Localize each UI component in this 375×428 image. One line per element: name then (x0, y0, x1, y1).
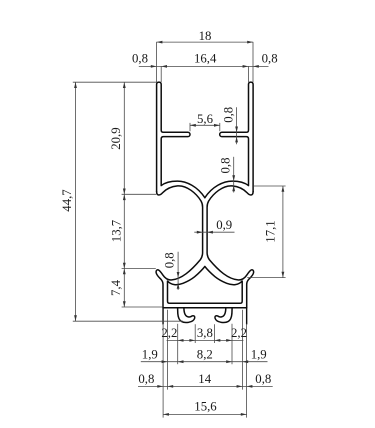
svg-text:14: 14 (198, 372, 211, 386)
svg-text:44,7: 44,7 (60, 189, 74, 212)
dimension leader 0,8 finger (236, 107, 238, 144)
extension line hook tip level (122, 268, 156, 270)
svg-text:7,4: 7,4 (109, 279, 123, 296)
svg-text:0,8: 0,8 (255, 372, 271, 386)
svg-text:17,1: 17,1 (264, 220, 278, 242)
extension line right foot outer (231, 324, 233, 364)
dimension line 44,7 (75, 82, 77, 321)
extension line base top right (247, 277, 285, 279)
extension line left inner wall top (160, 66, 162, 82)
dimension line 18 (157, 41, 253, 43)
svg-text:0,8: 0,8 (132, 52, 148, 66)
extension line right inner wall top (247, 66, 249, 82)
5,6 (190, 124, 196, 127)
row3 0,8 14 0,8 (157, 385, 163, 388)
svg-text:2,2: 2,2 (231, 326, 247, 340)
dimension line 5,6 (190, 124, 220, 126)
row1 2,2 3,8 2,2 (178, 339, 184, 342)
extension line profile bottom (73, 320, 183, 322)
svg-text:20,9: 20,9 (109, 127, 123, 149)
svg-text:1,9: 1,9 (251, 347, 267, 361)
0,8 arc lower-left (177, 272, 180, 278)
dimension line 1,9 / 8,2 / 1,9 (141, 361, 268, 363)
dimension line 0,9 (194, 231, 234, 233)
extension line base outer right (246, 324, 248, 418)
dimension leader 0,8 arc (177, 252, 179, 290)
extension line base inner right (241, 310, 243, 390)
extension line left outer wall top (156, 42, 158, 82)
extension line right web junction (254, 185, 286, 187)
row2 1,9 8,2 1,9 (162, 360, 168, 363)
dimension texts (60, 29, 278, 413)
18 (157, 41, 163, 44)
44,7 (74, 82, 77, 88)
extension line base bottom level (122, 306, 163, 308)
svg-text:0,8: 0,8 (262, 52, 278, 66)
profile left half (156, 82, 205, 324)
svg-text:0,8: 0,8 (218, 158, 232, 174)
extension line right foot tip (214, 324, 216, 343)
extension line left foot outer (177, 324, 179, 364)
svg-text:0,8: 0,8 (138, 372, 154, 386)
svg-text:0,8: 0,8 (163, 252, 177, 268)
dimension leader 0,8 web (233, 157, 235, 193)
svg-text:16,4: 16,4 (194, 52, 217, 66)
extension line profile top left (73, 81, 157, 83)
profile right half (mirror) (205, 82, 254, 324)
svg-text:13,7: 13,7 (109, 219, 123, 242)
dimension line 15,6 (163, 413, 247, 415)
svg-text:18: 18 (199, 29, 212, 43)
dimension line 2,2 / 3,8 / 2,2 (167, 339, 244, 341)
dimension line 20,9 / 13,7 / 7,4 (123, 82, 125, 307)
svg-text:2,2: 2,2 (161, 326, 177, 340)
extension line right outer wall top (252, 42, 254, 82)
extension line left finger tip (189, 123, 191, 131)
extension line base inner left (166, 310, 168, 390)
0,8 finger (235, 127, 238, 133)
svg-text:8,2: 8,2 (197, 347, 213, 361)
extension line left foot tip (194, 324, 196, 343)
svg-text:5,6: 5,6 (197, 112, 214, 126)
20,9 / 13,7 / 7,4 chain (123, 82, 126, 88)
dimension line 17,1 (282, 186, 284, 278)
svg-text:1,9: 1,9 (142, 347, 158, 361)
extension line base outer left (162, 324, 164, 418)
extension line right finger tip (219, 123, 221, 131)
svg-text:0,9: 0,9 (216, 218, 232, 232)
0,8 16,4 0,8 (151, 65, 157, 68)
arrowheads (74, 41, 284, 416)
extension line wall tip level (122, 193, 157, 195)
row4 15,6 (163, 413, 169, 416)
svg-text:15,6: 15,6 (194, 399, 217, 413)
svg-text:3,8: 3,8 (197, 326, 213, 340)
dimension line 0,8 / 16,4 / 0,8 (139, 65, 269, 67)
svg-text:0,8: 0,8 (222, 107, 236, 123)
0,9 (197, 231, 203, 234)
17,1 (282, 186, 285, 192)
0,8 dome (232, 175, 235, 181)
dimension line 0,8 / 14 / 0,8 (138, 385, 273, 387)
